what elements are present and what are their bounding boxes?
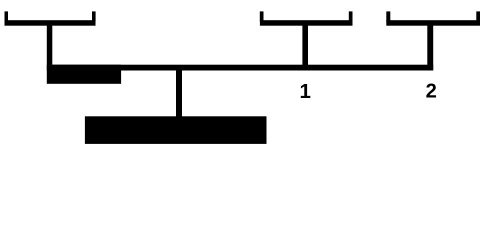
svg-text:2: 2 (426, 80, 437, 102)
svg-text:1: 1 (299, 80, 310, 103)
